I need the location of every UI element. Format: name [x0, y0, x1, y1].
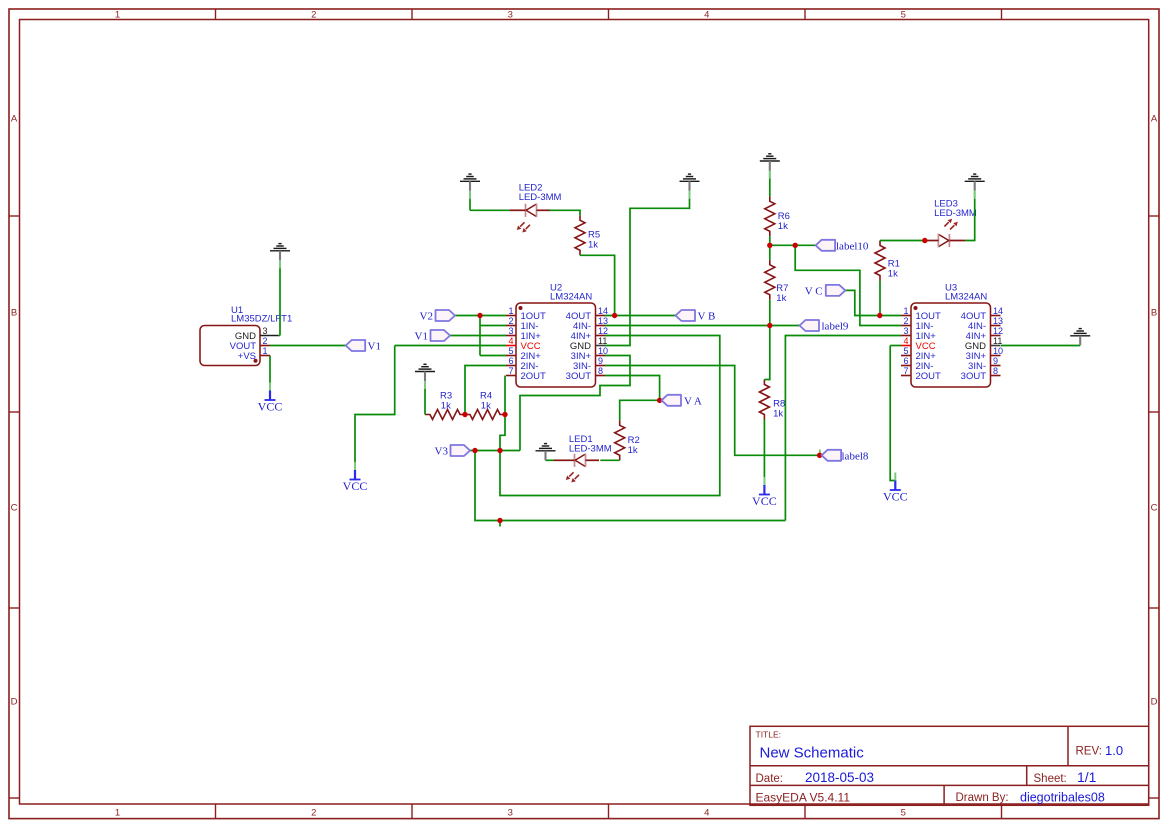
U1 pin 2 (VOUT) [230, 336, 270, 352]
junction R7-R8 / label9 node [767, 323, 772, 328]
VCC power flag below R8 [752, 477, 777, 508]
U2 pin 12 (4IN+) [571, 326, 608, 342]
resistor R1 1k [875, 241, 885, 281]
svg-text:1k: 1k [588, 239, 598, 250]
ground above R3 [415, 364, 435, 389]
U2 pin 3 (1IN+) [506, 326, 541, 342]
svg-text:V C: V C [805, 285, 823, 297]
pale stub above label8 junction [819, 450, 821, 454]
wire V3 net to U2 pin10 [520, 356, 630, 451]
svg-text:2OUT: 2OUT [916, 371, 942, 382]
frame ruler ticks left [9, 215, 20, 217]
svg-text:1k: 1k [441, 401, 451, 412]
svg-text:VCC: VCC [258, 400, 283, 414]
LED1 LED-3MM [559, 454, 599, 483]
svg-text:1.0: 1.0 [1105, 743, 1123, 758]
svg-text:REV:: REV: [1076, 746, 1102, 758]
svg-text:VCC: VCC [883, 490, 908, 504]
junction V3 net 2 [497, 448, 502, 453]
svg-text:1: 1 [903, 306, 908, 316]
wire ground to R6 top [769, 171, 771, 197]
wire LED2 cathode to R5 top [550, 210, 581, 215]
wire U3 pin4 VCC stub [890, 345, 901, 347]
svg-text:Drawn By:: Drawn By: [956, 792, 1009, 804]
U2 pin 13 (4IN-) [573, 316, 608, 332]
svg-text:14: 14 [993, 306, 1003, 316]
svg-text:9: 9 [993, 356, 998, 366]
svg-text:10: 10 [598, 346, 608, 356]
junction R6-R7 node [767, 243, 772, 248]
svg-text:D: D [1151, 697, 1158, 708]
svg-text:Date:: Date: [756, 773, 784, 785]
svg-text:1k: 1k [888, 269, 898, 280]
svg-text:1k: 1k [773, 409, 783, 420]
svg-text:3: 3 [508, 10, 513, 21]
U2 pin 14 (4OUT) [566, 306, 608, 322]
ground above U1 [270, 244, 290, 269]
net flag V A [662, 395, 682, 406]
wire R6 bottom to R7 top [769, 236, 771, 259]
svg-text:12: 12 [598, 326, 608, 336]
resistor R3 1k [425, 410, 465, 420]
wire to U2 pin2 [480, 325, 506, 327]
svg-text:V1: V1 [368, 341, 381, 353]
U2 pin 6 (2IN-) [506, 356, 538, 372]
svg-text:5: 5 [901, 10, 906, 21]
wire U2 pin11 GND to ground symbol [605, 191, 690, 346]
svg-text:4: 4 [903, 336, 908, 346]
svg-text:V3: V3 [435, 446, 449, 458]
wire LED3 to ground [965, 191, 974, 241]
wire U2 pin14 to V B flag [605, 315, 676, 317]
resistor R4 1k [465, 410, 505, 420]
resistor R7 1k [765, 260, 775, 300]
junction at LED3 anode [922, 238, 927, 243]
svg-text:6: 6 [508, 356, 513, 366]
wire V2 net vertical [479, 316, 481, 356]
U3 pin 13 (4IN-) [968, 316, 1003, 332]
svg-text:3: 3 [263, 326, 268, 336]
wire U3 pin11 GND to ground [1001, 345, 1080, 347]
wire LED1 to R2 bottom [600, 459, 619, 461]
svg-text:New Schematic: New Schematic [760, 745, 865, 762]
svg-text:VCC: VCC [343, 479, 368, 493]
wire VCC riser for U2 [355, 346, 395, 471]
svg-text:1: 1 [115, 808, 120, 819]
svg-text:label10: label10 [836, 240, 869, 252]
svg-text:4: 4 [704, 10, 709, 21]
wire U3 VCC riser [890, 346, 895, 481]
svg-text:1k: 1k [776, 293, 786, 304]
ground above R6 [760, 154, 780, 179]
svg-text:1k: 1k [481, 401, 491, 412]
svg-text:V B: V B [698, 311, 716, 323]
wire ground down to LED2 [469, 191, 471, 210]
wire U1 GND to ground [279, 261, 281, 336]
wire U2 pin7 / R4 right down to V3 net [500, 376, 505, 451]
resistor R8 1k [759, 380, 769, 420]
junction R4 right [502, 412, 507, 417]
wire R7 bottom to label9 node [769, 300, 771, 326]
svg-text:10: 10 [993, 346, 1003, 356]
wire R1 top to LED3 [880, 240, 927, 242]
svg-text:5: 5 [901, 808, 906, 819]
svg-text:3OUT: 3OUT [961, 371, 987, 382]
U3 pin 11 (GND) [965, 336, 1002, 352]
wire V3 net lower run [475, 451, 785, 521]
junction label10 node [793, 243, 798, 248]
title block [750, 726, 1149, 805]
svg-text:4: 4 [508, 336, 513, 346]
net flag V1 at U1 [346, 340, 366, 351]
U3 pin 6 (2IN-) [901, 356, 933, 372]
wire to LED2 anode [470, 209, 510, 211]
resistor R6 1k [765, 196, 775, 236]
svg-text:2: 2 [263, 336, 268, 346]
op-amp U2 LM324AN [506, 283, 608, 388]
net flag V3 [451, 445, 471, 456]
wire U1 +VS down to VCC [269, 356, 271, 391]
U3 pin 8 (3OUT) [961, 366, 1001, 382]
svg-text:3: 3 [508, 326, 513, 336]
wire U2 pin9 to label8 [605, 366, 820, 456]
svg-text:2: 2 [311, 808, 316, 819]
wire R6-R7 node to label10 [770, 244, 816, 246]
wire U1 VOUT to V1 flag [270, 345, 346, 347]
U2 pin 11 (GND) [570, 336, 607, 352]
U2 pin1 indicator dot [519, 306, 523, 310]
svg-text:label8: label8 [842, 450, 869, 462]
U3 pin 14 (4OUT) [961, 306, 1003, 322]
wire lower run up to U3 pin3 [785, 336, 901, 521]
svg-text:1: 1 [263, 346, 268, 356]
svg-text:A: A [11, 114, 18, 125]
wire R3-R4 node to U2 pin6 [465, 366, 506, 415]
net flag V2 [436, 310, 456, 321]
wire ground to LED1 [546, 459, 555, 461]
wire V A node to R2 top [620, 400, 660, 420]
svg-text:Sheet:: Sheet: [1034, 773, 1067, 785]
U3 pin 1 (1OUT) [901, 306, 941, 322]
U3 pin 12 (4IN+) [966, 326, 1003, 342]
svg-text:2: 2 [311, 10, 316, 21]
net flag V1 at U2 [431, 330, 451, 341]
wire U2 pin13 to label9 [605, 325, 800, 327]
VCC power flag for U2 pin4 [343, 462, 368, 493]
svg-text:label9: label9 [822, 321, 849, 333]
junction at U2 pin14 / R5 [612, 313, 617, 318]
wire U2 pin8 down to V A node [605, 376, 660, 401]
svg-text:C: C [11, 503, 18, 514]
U1 pin1 indicator dot [254, 359, 258, 363]
U2 pin 1 (1OUT) [506, 306, 546, 322]
svg-text:LM324AN: LM324AN [945, 292, 987, 303]
junction at V2 net [477, 313, 482, 318]
U3 pin 4 (VCC) [901, 336, 936, 352]
svg-text:B: B [11, 308, 17, 319]
U3 pin 7 (2OUT) [901, 366, 941, 382]
ground left of LED1 [536, 444, 556, 461]
svg-text:4: 4 [704, 808, 709, 819]
svg-text:3: 3 [508, 808, 513, 819]
svg-text:B: B [1151, 308, 1157, 319]
junction lower run [497, 518, 502, 523]
svg-text:LED-3MM: LED-3MM [519, 192, 562, 203]
wire V2 flag to U2 pin1 [455, 315, 506, 317]
ground right of U3 [1070, 329, 1090, 346]
ground above LED2 [460, 174, 480, 199]
U1 pin 1 (+VS) [238, 346, 270, 362]
svg-text:2: 2 [903, 316, 908, 326]
svg-text:C: C [1151, 503, 1158, 514]
op-amp U3 LM324AN [901, 283, 1003, 388]
svg-text:8: 8 [598, 366, 603, 376]
svg-text:D: D [11, 697, 18, 708]
U1 pin 3 (GND) [235, 326, 278, 342]
wire R5 bottom to U2 pin14 net [580, 255, 615, 315]
svg-text:11: 11 [993, 336, 1002, 346]
net flag label8 [822, 450, 842, 461]
U2 pin 10 (3IN+) [571, 346, 608, 362]
resistor R5 1k [575, 215, 585, 255]
junction R3-R4 [462, 412, 467, 417]
LED2 LED-3MM [510, 204, 550, 233]
svg-text:LM324AN: LM324AN [550, 292, 592, 303]
net flag V C [826, 285, 846, 296]
U3 pin1 indicator dot [914, 306, 918, 310]
junction R1 bottom at U3 pin1 [877, 313, 882, 318]
ground above LED3 [965, 174, 985, 199]
U3 pin 9 (3IN-) [968, 356, 1000, 372]
U3 pin 2 (1IN-) [901, 316, 933, 332]
svg-text:7: 7 [903, 366, 908, 376]
LED3 LED-3MM [926, 219, 965, 248]
svg-text:LED-3MM: LED-3MM [934, 208, 977, 219]
svg-text:EasyEDA V5.4.11: EasyEDA V5.4.11 [756, 790, 851, 804]
svg-text:12: 12 [993, 326, 1003, 336]
svg-text:1k: 1k [628, 445, 638, 456]
frame ruler ticks top [215, 9, 217, 20]
junction V A node [657, 398, 662, 403]
wire V3 flag net [470, 450, 520, 452]
VCC power flag at U1 +VS [258, 383, 283, 414]
svg-text:8: 8 [993, 366, 998, 376]
wire stub below junction [499, 521, 501, 527]
svg-text:3: 3 [903, 326, 908, 336]
svg-text:VCC: VCC [752, 494, 777, 508]
frame ruler ticks bottom [215, 804, 217, 819]
svg-text:11: 11 [598, 336, 607, 346]
wire U1 GND pin corner [278, 335, 280, 337]
ground for U2 GND pin11 [680, 174, 700, 199]
svg-text:9: 9 [598, 356, 603, 366]
svg-text:A: A [1151, 114, 1158, 125]
net flag label9 [800, 320, 820, 331]
U3 pin 10 (3IN+) [966, 346, 1003, 362]
wire label9 node down to R8 top [764, 326, 769, 380]
svg-text:3OUT: 3OUT [566, 371, 592, 382]
svg-text:2: 2 [508, 316, 513, 326]
svg-text:2018-05-03: 2018-05-03 [805, 770, 874, 785]
wire V3 net to U2 pin12 [500, 336, 720, 496]
junction V3 net 1 [472, 448, 477, 453]
U2 pin 8 (3OUT) [566, 366, 606, 382]
U2 pin 9 (3IN-) [573, 356, 605, 372]
svg-text:13: 13 [993, 316, 1003, 326]
svg-text:14: 14 [598, 306, 608, 316]
resistor R2 1k [615, 420, 625, 460]
wire ground to R3 left [424, 389, 426, 415]
U2 pin 2 (1IN-) [506, 316, 538, 332]
wire label10 node to U3 pin2 [795, 245, 901, 325]
wire to U2 pin5 [480, 355, 506, 357]
U3 pin 3 (1IN+) [901, 326, 936, 342]
svg-text:6: 6 [903, 356, 908, 366]
svg-text:2OUT: 2OUT [521, 371, 547, 382]
svg-text:1k: 1k [778, 221, 788, 232]
wire VCC to U2 pin4 [395, 345, 506, 347]
svg-text:7: 7 [508, 366, 513, 376]
sensor U1 LM35DZ/LFT1 [200, 305, 292, 366]
wire R1 bottom to U3 pin1 net [879, 281, 881, 316]
svg-text:13: 13 [598, 316, 608, 326]
U2 pin 5 (2IN+) [506, 346, 541, 362]
net flag V B [676, 310, 696, 321]
wire R8 bottom to VCC [763, 420, 765, 487]
U3 pin 5 (2IN+) [901, 346, 936, 362]
svg-text:1: 1 [508, 306, 513, 316]
svg-text:TITLE:: TITLE: [756, 729, 782, 739]
svg-text:1/1: 1/1 [1077, 769, 1097, 785]
svg-text:1: 1 [115, 10, 120, 21]
VCC power flag for U3 pin4 [883, 473, 908, 504]
junction at label8 [817, 453, 822, 458]
U2 pin 7 (2OUT) [506, 366, 546, 382]
svg-text:LM35DZ/LFT1: LM35DZ/LFT1 [231, 314, 292, 325]
wire V1 flag to U2 pin3 [450, 335, 506, 337]
wire V C flag to U3 pin1 [845, 290, 901, 315]
svg-text:LED-3MM: LED-3MM [569, 444, 612, 455]
svg-text:diegotribales08: diegotribales08 [1020, 790, 1105, 804]
svg-text:V1: V1 [415, 331, 428, 343]
frame ruler ticks right [1149, 215, 1159, 217]
svg-text:+VS: +VS [238, 351, 256, 362]
U2 pin 4 (VCC) [506, 336, 541, 352]
svg-text:V A: V A [684, 395, 702, 407]
svg-text:5: 5 [903, 346, 908, 356]
net flag label10 [816, 240, 836, 251]
svg-text:5: 5 [508, 346, 513, 356]
svg-text:V2: V2 [420, 311, 433, 323]
